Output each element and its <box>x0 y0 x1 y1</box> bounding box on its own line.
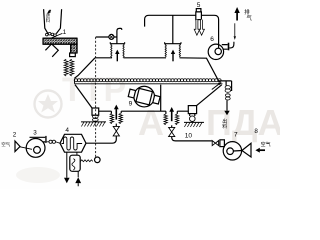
air intake cone 2 <box>15 141 20 152</box>
exhaust label <box>244 8 252 22</box>
product out arrow <box>226 100 228 111</box>
svg-text:6: 6 <box>210 36 214 43</box>
duct B flow arrow <box>172 54 174 62</box>
label 2 <box>13 132 17 139</box>
vibrator motor 9 <box>127 83 162 110</box>
svg-text:空气: 空气 <box>261 141 271 148</box>
product out label <box>222 118 227 130</box>
exhaust manifold <box>145 15 219 48</box>
riser 2 bellows springs <box>164 114 167 125</box>
svg-text:2: 2 <box>13 132 17 139</box>
fan 6 outlet <box>222 45 228 50</box>
intake air label <box>1 141 10 147</box>
svg-text:1: 1 <box>63 29 67 36</box>
svg-text:5: 5 <box>197 2 201 9</box>
discharge circle 2 <box>190 116 196 122</box>
label 9 <box>129 100 133 107</box>
pipe 10 valve <box>212 141 218 146</box>
svg-text:空气: 空气 <box>1 141 10 147</box>
air riser 1 arrow <box>115 109 117 120</box>
svg-text:出: 出 <box>222 118 227 125</box>
screw feeder 1 channel vertical <box>71 44 77 53</box>
product discharge bellows right <box>225 86 230 89</box>
intake air arrow <box>260 149 265 151</box>
svg-text:料: 料 <box>222 123 227 130</box>
label 6 <box>210 36 214 43</box>
air intake cone 8 <box>242 143 251 157</box>
fan 6 exhaust elbow <box>229 42 234 48</box>
svg-text:ТТР: ТТР <box>62 71 126 109</box>
cyclone 5 <box>196 9 201 12</box>
coupling <box>47 141 49 143</box>
duct A stub and hook <box>117 28 122 43</box>
discharge box 1 <box>92 108 99 115</box>
steam out pipe <box>66 152 68 178</box>
blower 3 <box>26 139 45 158</box>
exhaust up arrow <box>236 13 238 21</box>
label 10 <box>185 133 193 140</box>
discharge box 2 <box>188 106 196 114</box>
riser 1 bellows springs <box>110 113 113 123</box>
damper actuator circle-x <box>109 34 114 39</box>
bellows duct A <box>110 42 124 44</box>
duct A flow arrow <box>116 54 118 62</box>
thermostat bulb <box>95 157 101 163</box>
label 4 <box>65 127 69 134</box>
bed bottom funnel 1 <box>75 85 92 108</box>
label 8 <box>254 128 258 135</box>
discharge chute (tilted) <box>45 44 58 57</box>
heater 4 <box>60 134 86 152</box>
pipe heater to riser 1 <box>86 136 116 143</box>
label 7 <box>234 132 238 139</box>
label 3 <box>33 130 37 137</box>
svg-text:ПДА: ПДА <box>206 102 280 143</box>
watermark emblem circle <box>35 91 62 118</box>
bed bottom slope right <box>197 85 222 106</box>
riser 2 valve <box>171 125 173 127</box>
plenum bottom lines <box>99 85 189 112</box>
exhaust fan 6 <box>208 44 223 59</box>
svg-text:9: 9 <box>129 100 133 107</box>
svg-text:4: 4 <box>65 127 69 134</box>
svg-text:料: 料 <box>46 17 51 24</box>
capillary zigzag <box>80 160 93 162</box>
duct B riser to manifold <box>172 15 174 43</box>
riser 1 valve <box>115 124 117 127</box>
fan 7 <box>223 142 241 160</box>
steam trap <box>70 155 80 171</box>
fluid bed top shell <box>95 58 232 91</box>
steam pipe stub <box>76 152 78 155</box>
svg-text:气: 气 <box>247 14 253 22</box>
discharge bellows 1 <box>92 115 98 118</box>
air label right <box>261 141 271 148</box>
svg-text:8: 8 <box>254 128 258 135</box>
air riser 2 arrow <box>171 112 173 122</box>
feed hopper <box>44 9 62 34</box>
damper line with valve <box>96 36 117 38</box>
feed label text <box>46 13 51 24</box>
svg-text:7: 7 <box>234 132 238 139</box>
bed material bead chain <box>75 79 223 84</box>
feeder bottom flange <box>70 53 76 57</box>
feed label arrow <box>49 10 51 14</box>
ground under discharge 1 <box>81 121 106 123</box>
screw feeder 1 channel horizontal <box>43 38 77 44</box>
feed material beads <box>46 32 57 36</box>
ground under discharge 2 <box>184 121 204 123</box>
label 1 with leader <box>63 29 67 36</box>
label 5 <box>197 2 201 9</box>
bed material flow arrow <box>212 84 219 90</box>
heater element <box>62 137 83 150</box>
svg-text:10: 10 <box>185 133 193 140</box>
fan 7 inlet box <box>220 140 225 147</box>
bellows duct B <box>165 42 181 44</box>
pipe 10 to fan 7 <box>172 137 212 141</box>
isolation springs left <box>64 59 68 76</box>
steam in pipe <box>77 171 79 186</box>
damper linkage dashed line <box>95 37 97 157</box>
exhaust stack line <box>234 23 236 36</box>
cyclone dust arrows <box>194 20 204 36</box>
svg-text:3: 3 <box>33 130 37 137</box>
